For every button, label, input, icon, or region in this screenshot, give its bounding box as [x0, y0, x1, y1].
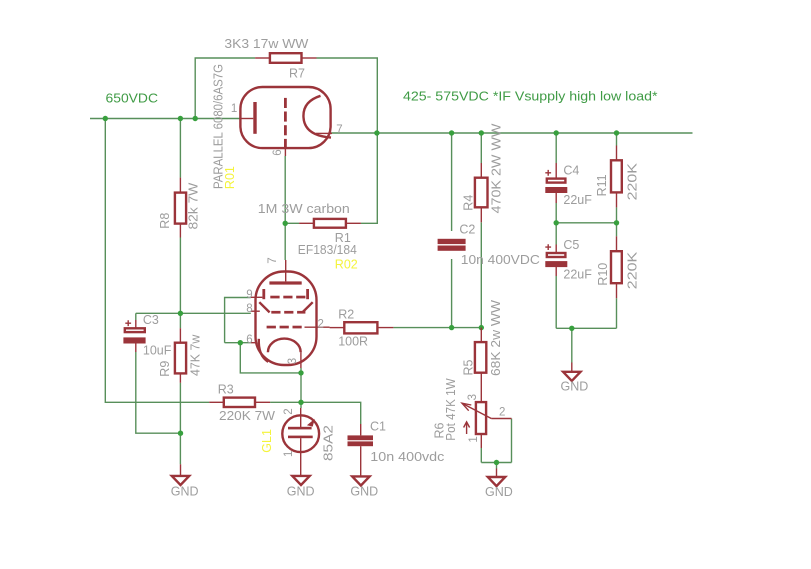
tube U1 pin1 lead — [240, 118, 253, 120]
svg-text:R10: R10 — [596, 263, 610, 286]
svg-text:2: 2 — [283, 408, 295, 414]
wire GL1 top stub — [300, 402, 302, 408]
svg-text:82k 7W: 82k 7W — [187, 182, 201, 229]
tube GL1 circle — [282, 415, 319, 452]
svg-text:R11: R11 — [595, 174, 609, 196]
wire pin6 junction down — [240, 343, 301, 373]
wire 650VDC horizontal rail — [90, 118, 241, 120]
svg-text:C1: C1 — [370, 420, 386, 434]
node cathode dot — [298, 370, 303, 375]
node R2 out dot C2 — [449, 325, 454, 330]
svg-text:650VDC: 650VDC — [106, 91, 159, 106]
ground pot — [488, 469, 505, 487]
svg-text:R3: R3 — [218, 383, 234, 397]
capacitor C4 polarized — [545, 163, 567, 203]
svg-text:GL1: GL1 — [260, 429, 274, 453]
node right GND dot — [569, 326, 574, 331]
node left GND dot — [178, 431, 183, 436]
tube U2 pin6 lead — [251, 342, 256, 344]
tube U2 heater hook — [259, 339, 268, 362]
svg-text:22uF: 22uF — [563, 268, 592, 282]
svg-text:68K 2w WW: 68K 2w WW — [489, 300, 503, 376]
svg-text:8: 8 — [246, 303, 252, 315]
wire right GND stub — [571, 328, 573, 362]
node anode dot C4 — [554, 130, 559, 135]
wire C4 top — [555, 133, 557, 163]
node R2 out dot R4-R5 — [479, 325, 484, 330]
svg-text:220K: 220K — [625, 162, 639, 200]
tube GL1 anode bar — [288, 427, 312, 430]
wire left rail vertical — [105, 119, 209, 403]
wire pin6 horizontal — [225, 342, 251, 344]
node C4 bottom dot — [554, 220, 559, 225]
tube U1 pin7 lead — [316, 132, 332, 134]
resistor R11 — [611, 146, 622, 208]
tube GL1 bottom lead — [300, 438, 302, 476]
tube U2 cathode dome — [268, 339, 301, 353]
svg-text:425- 575VDC *IF Vsupply high l: 425- 575VDC *IF Vsupply high low load* — [403, 89, 658, 104]
capacitor C1 — [348, 424, 374, 476]
svg-text:C2: C2 — [459, 222, 475, 236]
ground GL1 — [292, 476, 309, 485]
wire R4 bottom — [480, 222, 482, 327]
tube U2 control grid — [267, 326, 302, 329]
node 650VDC dot1 — [103, 116, 108, 121]
wire cathode down — [300, 368, 302, 402]
svg-text:C5: C5 — [563, 238, 579, 252]
svg-text:100R: 100R — [338, 334, 368, 348]
node anode dot C2 — [449, 130, 454, 135]
svg-text:22uF: 22uF — [563, 193, 592, 207]
svg-text:3: 3 — [287, 358, 299, 364]
svg-text:10uF: 10uF — [143, 344, 172, 358]
resistor R2 — [330, 322, 394, 333]
svg-text:R9: R9 — [158, 361, 172, 377]
wire pin9 horizontal — [225, 298, 251, 343]
tube U1 pin6 lead — [284, 148, 286, 156]
tube U1 envelope — [240, 87, 330, 148]
node GL1 top dot — [298, 400, 303, 405]
svg-text:2: 2 — [318, 318, 324, 330]
resistor R1 — [299, 219, 361, 228]
wire R7 top loop right — [317, 58, 378, 133]
tube U2 anode bar — [269, 281, 301, 284]
svg-text:7: 7 — [336, 124, 342, 136]
svg-text:C3: C3 — [143, 313, 159, 327]
svg-text:1: 1 — [283, 451, 295, 457]
svg-text:GND: GND — [287, 485, 315, 499]
svg-text:GND: GND — [561, 379, 589, 393]
wire R11-R10 link — [616, 207, 618, 236]
wire R1 loop right — [361, 133, 377, 223]
node 650VDC dot2 — [178, 116, 183, 121]
ground left — [172, 464, 189, 485]
svg-text:R8: R8 — [158, 213, 172, 229]
svg-text:470K 2W WW: 470K 2W WW — [489, 123, 503, 213]
wire R2 output — [393, 327, 481, 329]
wire R8-R9 vertical — [179, 238, 181, 329]
wire C5 top — [555, 223, 557, 245]
wire pot wiper vertical — [511, 419, 513, 463]
svg-text:3K3 17w WW: 3K3 17w WW — [224, 37, 308, 51]
wire C5 bottom — [555, 276, 557, 328]
svg-text:220K 7W: 220K 7W — [219, 409, 275, 423]
svg-text:3: 3 — [467, 394, 479, 400]
tube U2 screen grid — [259, 302, 312, 313]
node R1 left dot — [283, 221, 288, 226]
tube U2 suppressor grid — [262, 289, 309, 299]
ground C1 — [352, 476, 369, 485]
tube U1 grid dashes — [284, 98, 287, 148]
wire R3 rail to C1 — [270, 402, 361, 424]
tube U1 anode bar — [253, 102, 256, 134]
tube U1 cathode arc — [303, 96, 331, 138]
svg-text:EF183/184: EF183/184 — [298, 243, 357, 257]
node anode dot R11 — [614, 130, 619, 135]
svg-text:85A2: 85A2 — [321, 425, 335, 461]
tube U2 cathode lead — [300, 352, 302, 368]
tube GL1 cathode bar — [288, 436, 313, 439]
node pin8 dot — [178, 311, 183, 316]
tube GL1 top lead — [300, 408, 302, 427]
svg-text:R02: R02 — [335, 258, 358, 272]
svg-text:R5: R5 — [461, 359, 475, 375]
svg-text:GND: GND — [485, 485, 513, 499]
node pot GND dot — [494, 460, 499, 465]
wire R1 left to interstage — [285, 222, 299, 224]
capacitor C2 — [438, 239, 466, 251]
potentiometer R6 — [462, 388, 512, 449]
tube U2 pin2 lead — [305, 326, 330, 328]
svg-text:Pot 47K 1W: Pot 47K 1W — [444, 378, 458, 441]
resistor R9 — [175, 328, 186, 383]
wire R11 top — [616, 133, 618, 146]
wire C4 bottom — [555, 203, 557, 223]
svg-text:GND: GND — [350, 484, 378, 498]
node anode dot R4 — [479, 130, 484, 135]
svg-text:9: 9 — [246, 289, 252, 301]
svg-text:10n 400vdc: 10n 400vdc — [370, 450, 444, 464]
capacitor C3 polarized — [123, 320, 145, 352]
wire right GND link — [556, 327, 616, 329]
wire C2 top — [451, 133, 453, 231]
svg-text:10n 400VDC: 10n 400VDC — [461, 253, 540, 267]
resistor R3 — [209, 398, 270, 407]
wire R8 top — [179, 119, 181, 178]
resistor R5 — [475, 328, 486, 388]
svg-text:R7: R7 — [289, 67, 305, 81]
wire R4 top — [480, 133, 482, 163]
svg-text:6: 6 — [272, 149, 284, 155]
tube U2 pin7 lead — [285, 260, 287, 281]
capacitor C5 polarized — [545, 244, 567, 276]
wire C4-C5-R11-R10 link — [556, 222, 616, 224]
node pin6 dot — [238, 340, 243, 345]
wire pot GND link — [481, 462, 511, 464]
wire R9 bottom to GND junction — [179, 383, 181, 465]
resistor R4 — [475, 163, 488, 222]
svg-text:GND: GND — [171, 485, 199, 499]
resistor R10 — [611, 236, 622, 298]
wire C3 bottom — [136, 352, 181, 433]
svg-text:220K: 220K — [625, 251, 639, 289]
resistor R8 — [175, 178, 186, 238]
wire C3 top — [135, 313, 137, 320]
tube U2 envelope — [256, 272, 317, 366]
node anode dot R7 — [374, 130, 379, 135]
svg-text:47K 7w: 47K 7w — [189, 334, 203, 376]
wire pin8 horizontal — [136, 312, 251, 314]
wire anode main horizontal — [331, 132, 693, 134]
svg-text:C4: C4 — [563, 164, 579, 178]
svg-text:1: 1 — [231, 103, 237, 115]
wire pot bottom — [480, 448, 482, 463]
wire interstage vertical tube1 pin6 to tube2 pin7 — [284, 156, 286, 260]
tube U2 pin8 lead — [251, 310, 260, 312]
svg-text:1: 1 — [468, 436, 480, 442]
svg-text:R2: R2 — [338, 307, 354, 321]
svg-text:6: 6 — [246, 334, 252, 346]
node 650VDC dot3 — [193, 116, 198, 121]
svg-text:R4: R4 — [462, 195, 476, 211]
wire pot GND stub — [496, 463, 498, 469]
wire C2 bottom — [451, 259, 453, 328]
svg-text:2: 2 — [499, 406, 505, 418]
ground right — [563, 363, 580, 381]
node R11-R10 dot — [614, 220, 619, 225]
svg-text:1M 3W carbon: 1M 3W carbon — [258, 202, 350, 216]
tube GL1 flag — [307, 419, 315, 427]
wire R7 top loop left — [195, 58, 255, 119]
wire R10 bottom — [616, 298, 618, 328]
tube U2 pin9 lead — [251, 296, 263, 298]
resistor R7 — [255, 53, 316, 63]
svg-text:7: 7 — [267, 257, 279, 263]
svg-text:R01: R01 — [223, 166, 237, 189]
